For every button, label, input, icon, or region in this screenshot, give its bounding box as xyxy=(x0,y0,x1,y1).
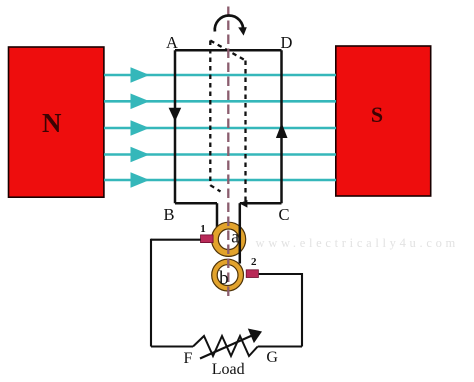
wire right vertical xyxy=(301,273,303,347)
field line 1 xyxy=(104,67,336,83)
svg-text:A: A xyxy=(166,33,178,52)
rotation axis (dashed) xyxy=(227,7,229,301)
coil lead to slip ring b xyxy=(239,203,242,263)
svg-text:D: D xyxy=(281,33,293,52)
magnet S pole xyxy=(336,46,431,196)
svg-text:C: C xyxy=(278,205,289,224)
current arrow on side DC (up) xyxy=(276,123,288,138)
svg-text:B: B xyxy=(163,205,174,224)
field line 3 xyxy=(104,120,336,136)
wire brush1 to left xyxy=(151,239,201,241)
slip ring a xyxy=(212,222,246,256)
coil lead to slip ring a xyxy=(216,203,219,227)
svg-text:1: 1 xyxy=(200,223,206,235)
brush 2 xyxy=(246,270,258,278)
armature coil ABCD (solid position) xyxy=(175,50,282,203)
rotation arrow (curved) xyxy=(215,15,247,35)
rotated coil (dashed position) xyxy=(210,41,247,208)
field line 5 xyxy=(104,172,336,188)
field line 2 xyxy=(104,94,336,110)
svg-text:Load: Load xyxy=(212,361,245,378)
svg-text:b: b xyxy=(219,268,229,289)
svg-text:G: G xyxy=(266,349,278,366)
svg-text:N: N xyxy=(42,108,62,138)
slip ring b xyxy=(212,259,244,291)
svg-text:S: S xyxy=(371,102,383,127)
wire left vertical xyxy=(150,239,152,347)
brush 1 xyxy=(201,235,214,243)
wire bottom left to load xyxy=(151,345,193,347)
svg-text:F: F xyxy=(184,350,193,367)
wire bottom right to load xyxy=(258,345,302,347)
svg-text:www.electrically4u.com: www.electrically4u.com xyxy=(256,236,459,250)
svg-text:a: a xyxy=(231,227,239,247)
current arrow on side AB (down) xyxy=(169,108,182,122)
magnet N pole xyxy=(9,47,104,197)
svg-text:2: 2 xyxy=(251,256,257,268)
rheostat arrow xyxy=(200,329,262,359)
field line 4 xyxy=(104,147,336,163)
load rheostat zigzag FG xyxy=(193,336,258,356)
wire brush2 to right xyxy=(259,273,302,275)
